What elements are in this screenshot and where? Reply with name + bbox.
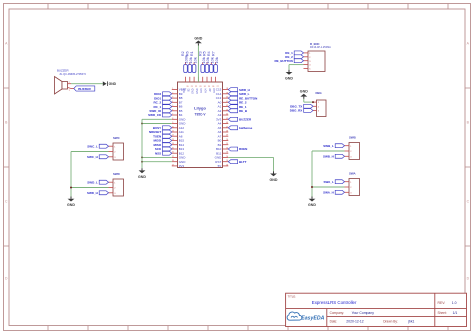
svg-text:R7: R7 <box>211 51 215 56</box>
svg-text:10: 10 <box>172 126 174 128</box>
net label SWC_L <box>87 144 108 148</box>
svg-text:15: 15 <box>172 148 174 150</box>
net label NSS <box>155 151 172 155</box>
svg-text:GND: GND <box>192 88 195 94</box>
net label TXEN <box>153 134 172 138</box>
ground <box>103 81 117 86</box>
svg-text:24: 24 <box>204 86 206 88</box>
svg-text:7: 7 <box>172 114 173 116</box>
net label BUZZER <box>74 86 95 91</box>
svg-text:RXEN: RXEN <box>239 147 247 151</box>
svg-text:Sheet:: Sheet: <box>438 311 447 315</box>
svg-text:50: 50 <box>226 139 228 141</box>
svg-text:18: 18 <box>172 160 174 162</box>
svg-text:SWC_L: SWC_L <box>87 144 98 148</box>
net label RE_1 <box>285 51 303 55</box>
svg-text:20: 20 <box>187 86 189 88</box>
net label SWA_L <box>323 180 344 184</box>
net label SCK <box>155 147 172 151</box>
svg-text:ExpressLRS Controller: ExpressLRS Controller <box>312 300 357 305</box>
svg-text:1/1: 1/1 <box>453 311 458 315</box>
svg-text:43: 43 <box>226 109 228 111</box>
svg-text:SWD_H: SWD_H <box>87 191 98 195</box>
svg-text:41: 41 <box>226 101 228 103</box>
resistor R5 <box>203 51 211 72</box>
svg-text:R1: R1 <box>190 51 194 56</box>
node <box>141 123 143 125</box>
wire <box>197 46 199 83</box>
svg-text:EasyEDA: EasyEDA <box>301 316 324 322</box>
svg-text:DF13-4P-1.25DSA: DF13-4P-1.25DSA <box>310 46 331 49</box>
svg-text:GND: GND <box>109 82 117 86</box>
connector SWA <box>345 172 360 196</box>
net label RE_2 <box>285 55 303 59</box>
svg-text:5V: 5V <box>218 164 222 168</box>
svg-text:19: 19 <box>172 164 174 166</box>
net label SWD_H <box>87 191 109 195</box>
net label MISO <box>154 143 172 147</box>
net label batSense <box>228 126 252 130</box>
svg-text:Date:: Date: <box>330 320 338 324</box>
svg-text:6: 6 <box>172 109 173 111</box>
svg-text:47: 47 <box>226 126 228 128</box>
svg-text:56: 56 <box>226 164 228 166</box>
net label DBG_TX <box>290 104 313 108</box>
svg-text:A14: A14 <box>205 88 208 93</box>
svg-text:42: 42 <box>226 105 228 107</box>
net label SWD_L <box>87 180 108 184</box>
resistor R6 <box>186 51 194 72</box>
svg-text:SWB_L: SWB_L <box>323 144 334 148</box>
svg-text:SWB_H: SWB_H <box>323 155 334 159</box>
connector SWD <box>109 172 124 196</box>
svg-text:batSense: batSense <box>239 126 253 130</box>
svg-text:RE_B: RE_B <box>239 109 248 113</box>
wire <box>142 123 172 125</box>
wire <box>71 187 109 189</box>
net label BUSY <box>153 126 172 130</box>
wire <box>71 151 109 153</box>
svg-text:Drawn By:: Drawn By: <box>383 320 398 324</box>
wire <box>70 152 72 197</box>
wire <box>142 156 172 158</box>
left pins of U1 <box>172 88 187 168</box>
wire <box>289 65 304 70</box>
wire <box>312 186 345 188</box>
net label SWA_H <box>323 190 344 194</box>
svg-text:SWA: SWA <box>349 172 356 176</box>
svg-text:SWC_H: SWC_H <box>87 155 98 159</box>
svg-text:NSS: NSS <box>155 151 161 155</box>
svg-text:23: 23 <box>199 86 201 88</box>
ground <box>67 197 75 208</box>
svg-text:ZL QC-09605-2705P-5: ZL QC-09605-2705P-5 <box>60 72 87 76</box>
connector SWB <box>345 136 360 160</box>
svg-text:Lilygo: Lilygo <box>194 106 206 111</box>
svg-text:55: 55 <box>226 160 228 162</box>
svg-text:27: 27 <box>217 86 219 88</box>
svg-text:1: 1 <box>172 88 173 90</box>
svg-text:44: 44 <box>226 114 228 116</box>
svg-text:GND: GND <box>67 203 75 207</box>
svg-text:GND: GND <box>308 203 316 207</box>
node <box>141 161 143 163</box>
svg-text:22: 22 <box>195 86 197 88</box>
net label BUZZER <box>228 117 252 121</box>
svg-text:T95C-V: T95C-V <box>195 112 207 116</box>
resistor R1 <box>190 51 198 72</box>
svg-text:25: 25 <box>208 86 210 88</box>
svg-text:DBG_RX: DBG_RX <box>290 109 303 113</box>
ground <box>285 70 293 81</box>
resistor R4 <box>207 51 215 72</box>
net label SWB_L <box>323 144 344 148</box>
svg-text:40: 40 <box>226 97 228 99</box>
svg-text:17: 17 <box>172 156 174 158</box>
svg-text:49: 49 <box>226 135 228 137</box>
net label SWR_L <box>228 92 249 96</box>
net label RE_BUTTON <box>228 96 257 100</box>
svg-text:A13: A13 <box>200 88 203 93</box>
svg-text:SWD_L: SWD_L <box>87 180 98 184</box>
wire <box>142 118 172 120</box>
net label RE_BUTTON <box>275 59 304 63</box>
net label RE_1 <box>228 105 247 109</box>
svg-text:5: 5 <box>172 105 173 107</box>
wire <box>71 83 103 85</box>
net label SWD_IO <box>149 109 171 113</box>
connector SWC <box>109 136 124 160</box>
svg-text:GND: GND <box>196 88 199 94</box>
resistor R2 <box>181 51 189 72</box>
svg-text:2020-12-12: 2020-12-12 <box>346 320 363 324</box>
svg-text:SWB: SWB <box>349 136 356 140</box>
svg-text:jbk1: jbk1 <box>407 320 414 324</box>
net label BLTT <box>228 160 246 164</box>
svg-text:Your Company: Your Company <box>352 311 375 315</box>
svg-text:DBG: DBG <box>316 91 322 95</box>
net label RC_1 <box>154 105 172 109</box>
svg-text:Company:: Company: <box>330 311 345 315</box>
svg-text:21: 21 <box>191 86 193 88</box>
wire <box>141 119 143 168</box>
svg-text:RE_BUTTON: RE_BUTTON <box>275 59 293 63</box>
net label SWC_H <box>87 155 109 159</box>
svg-text:53: 53 <box>226 152 228 154</box>
svg-text:16: 16 <box>172 152 174 154</box>
svg-text:9: 9 <box>172 122 173 124</box>
svg-text:52: 52 <box>226 148 228 150</box>
svg-text:38: 38 <box>226 88 228 90</box>
svg-text:48: 48 <box>226 131 228 133</box>
mcu module U1 Lilygo <box>178 82 223 168</box>
net label MOSI <box>154 139 172 143</box>
net label DIO1 <box>154 96 172 100</box>
net label SWD_CK <box>148 113 172 117</box>
net label DIO2 <box>154 92 172 96</box>
svg-text:26: 26 <box>212 86 214 88</box>
svg-text:A10: A10 <box>213 88 216 93</box>
svg-text:11: 11 <box>172 131 174 133</box>
node <box>141 156 143 158</box>
svg-text:SWA_H: SWA_H <box>323 191 334 195</box>
svg-text:4: 4 <box>172 101 173 103</box>
top pins of U1 <box>183 77 219 94</box>
svg-text:46: 46 <box>226 122 228 124</box>
wire <box>312 150 345 152</box>
svg-text:SWC: SWC <box>113 136 121 140</box>
wire <box>304 99 313 102</box>
net label RXEN <box>228 147 247 151</box>
svg-text:3: 3 <box>172 97 173 99</box>
net label RE_2 <box>228 100 247 104</box>
svg-text:2: 2 <box>172 92 173 94</box>
title block <box>286 293 467 326</box>
resistor R3 <box>198 51 206 72</box>
svg-text:GND: GND <box>270 178 278 182</box>
net label RC_2 <box>154 100 172 104</box>
pin 2 of buzzer <box>68 82 72 84</box>
svg-text:45: 45 <box>226 118 228 120</box>
svg-text:BUZZER: BUZZER <box>57 68 69 72</box>
svg-text:1.0: 1.0 <box>452 301 457 305</box>
svg-text:8: 8 <box>172 118 173 120</box>
svg-text:GND: GND <box>285 76 293 80</box>
wire <box>273 157 275 171</box>
node <box>312 101 314 103</box>
svg-text:3V3: 3V3 <box>179 164 185 168</box>
svg-text:GND: GND <box>138 175 146 179</box>
svg-text:14: 14 <box>172 143 174 145</box>
wire <box>228 156 273 158</box>
svg-text:BUZZER: BUZZER <box>239 118 252 122</box>
ground <box>300 90 308 99</box>
node <box>70 187 72 189</box>
node <box>311 186 313 188</box>
svg-text:TITLE:: TITLE: <box>288 295 297 299</box>
svg-text:51: 51 <box>226 143 228 145</box>
svg-text:54: 54 <box>226 156 228 158</box>
svg-text:GND: GND <box>300 90 308 94</box>
svg-text:10k: 10k <box>192 57 197 63</box>
wire <box>142 161 172 163</box>
svg-text:BLTT: BLTT <box>239 160 247 164</box>
svg-text:12: 12 <box>172 135 174 137</box>
svg-text:REV:: REV: <box>438 301 446 305</box>
net label NRESET <box>149 130 172 134</box>
svg-text:10k: 10k <box>214 57 219 63</box>
connector DBG <box>313 91 326 117</box>
ground <box>308 197 316 208</box>
svg-text:GND: GND <box>194 36 202 40</box>
ground <box>194 36 202 45</box>
svg-text:SWD_CK: SWD_CK <box>148 113 162 117</box>
pin 1 of buzzer <box>68 87 74 92</box>
svg-text:13: 13 <box>172 139 174 141</box>
net label SWB_H <box>323 154 345 158</box>
buzzer LS1 <box>55 68 87 94</box>
wire <box>311 151 313 197</box>
ground <box>138 168 146 179</box>
connector R_ENC <box>304 42 332 72</box>
net label RE_B <box>228 109 248 113</box>
resistor R7 <box>211 51 219 72</box>
svg-text:SWD: SWD <box>113 172 120 176</box>
net label SWR_H <box>228 88 250 92</box>
svg-text:B10: B10 <box>183 88 186 93</box>
ground <box>270 171 278 182</box>
svg-text:39: 39 <box>226 92 228 94</box>
svg-text:BUZZER: BUZZER <box>78 87 91 91</box>
right pins of U1 <box>215 88 229 168</box>
svg-text:SWA_L: SWA_L <box>323 180 334 184</box>
net label DBG_RX <box>290 109 313 113</box>
